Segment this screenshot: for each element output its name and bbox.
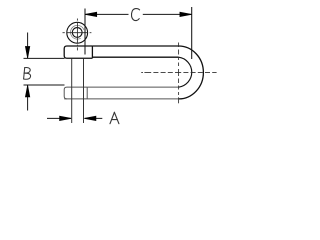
dim A line right (84, 117, 102, 119)
pin thread arc (71, 25, 84, 39)
pin head inner circle (72, 28, 82, 38)
dim C extension line left (84, 9, 86, 55)
bow horizontal centerline (141, 72, 216, 74)
dim C line right part (143, 13, 192, 15)
dim A line left (47, 117, 71, 119)
bow inner arc (179, 57, 192, 87)
dim C left arrow (85, 12, 97, 16)
dim C extension line right (191, 7, 193, 59)
dim C right arrow (180, 12, 192, 16)
dim A right arrow (84, 116, 96, 120)
pin shaft left edge (71, 59, 73, 123)
label B (24, 67, 31, 79)
top leg of shackle (92, 46, 178, 57)
dim B line top (27, 33, 29, 59)
pin vertical centerline (76, 19, 78, 51)
pin shaft right edge (83, 59, 85, 123)
dim B line bottom (27, 85, 29, 110)
dim B extension line bottom (24, 84, 65, 86)
dim B top arrow (25, 47, 29, 59)
label A (110, 112, 119, 123)
dim B extension line top (24, 57, 65, 59)
top eye (pin boss) (64, 46, 92, 58)
dim A left arrow (60, 116, 72, 120)
pin horizontal centerline (63, 32, 92, 34)
bow vertical centerline (178, 43, 180, 104)
pin head outer circle (67, 22, 88, 43)
label C (131, 9, 139, 21)
bow outer arc (179, 46, 204, 99)
dim C line left part (85, 13, 129, 15)
dim B bottom arrow (25, 85, 29, 97)
bottom eye (pin boss) (64, 87, 87, 99)
bottom leg of shackle (64, 87, 178, 99)
